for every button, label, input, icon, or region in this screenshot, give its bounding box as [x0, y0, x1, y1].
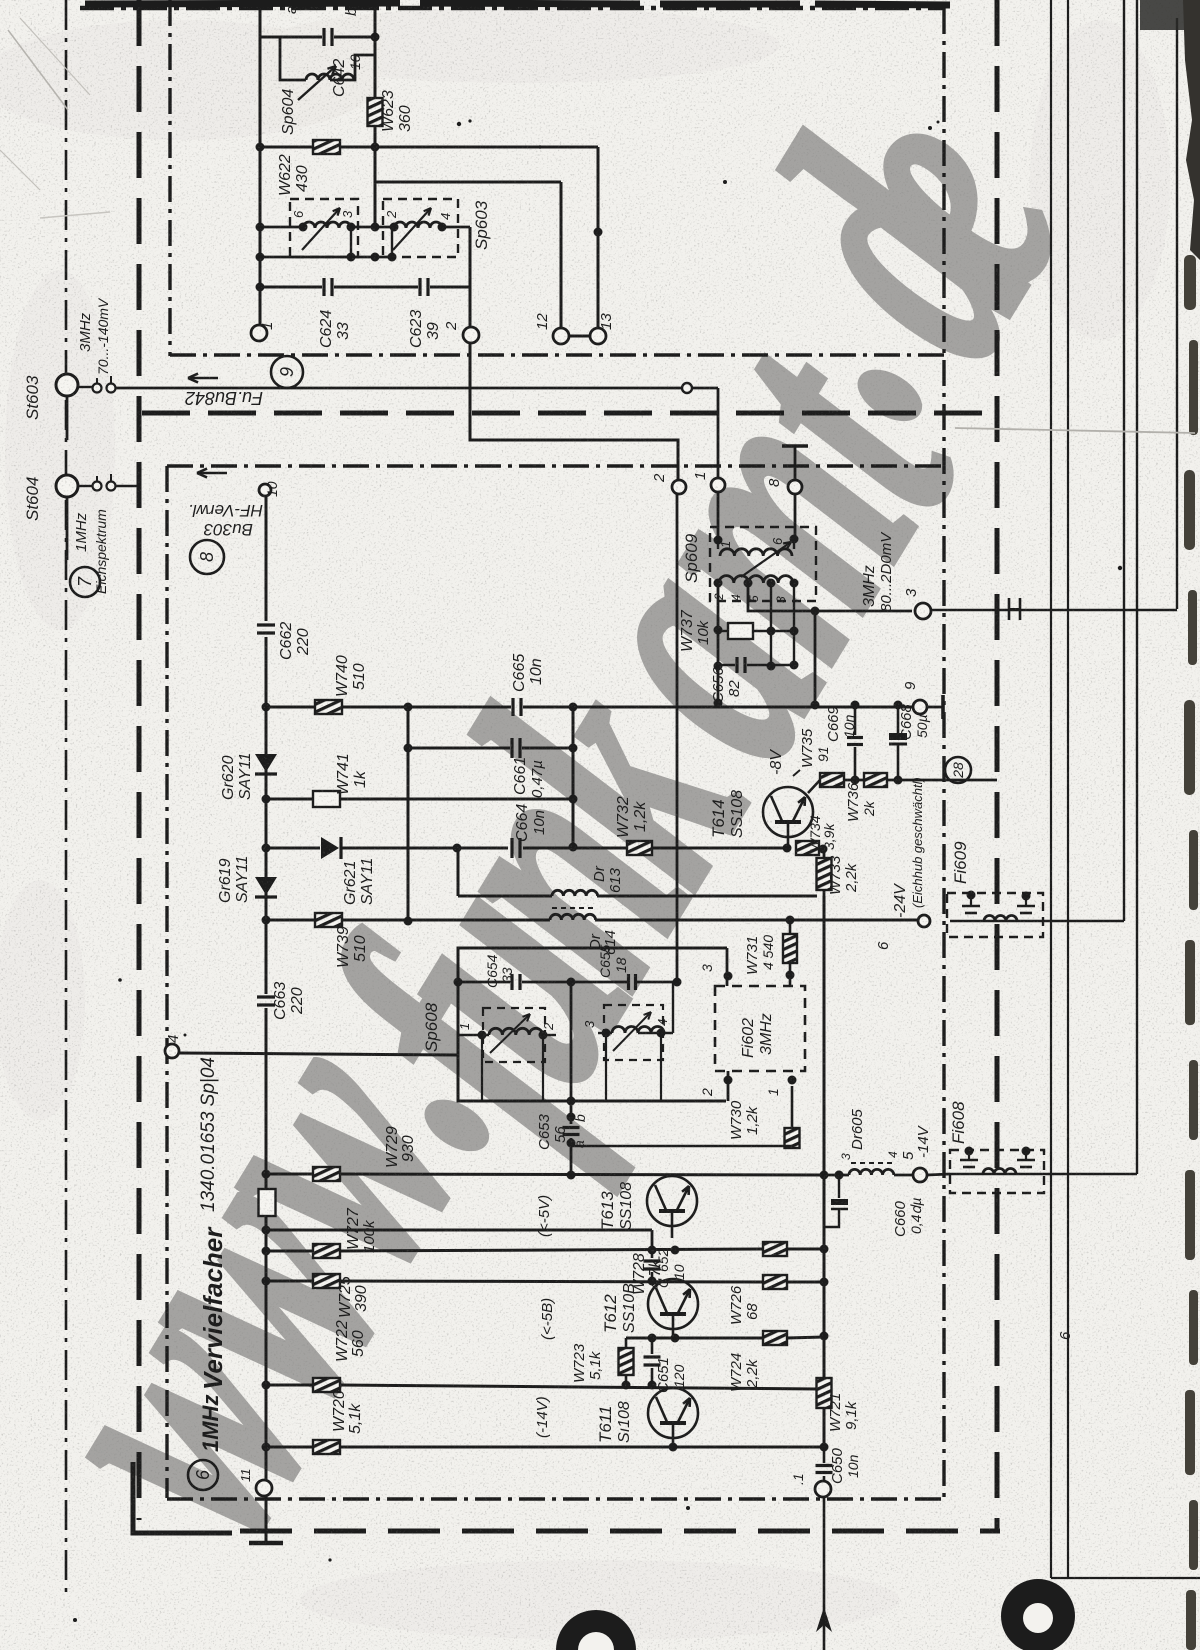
capacitor C650	[823, 1447, 826, 1463]
Fi602 pin1	[788, 1076, 797, 1085]
vertical x561 term12	[560, 182, 563, 329]
vertical x815 to main wire	[814, 611, 817, 705]
Fi602 dashed box	[715, 986, 805, 1071]
resistor W740	[315, 700, 342, 714]
punch hole left	[556, 1610, 636, 1650]
capacitor C660 hang	[835, 1171, 844, 1180]
transformer Sp603 box left	[290, 199, 358, 257]
block1 dash-dot bottom border	[170, 353, 944, 356]
heavy dashed frame corner bottom	[133, 1462, 232, 1533]
vertical pin4 x673	[672, 982, 674, 1033]
capacitor C651	[651, 1338, 654, 1354]
circled 28	[945, 757, 971, 783]
wire collector T614 y780	[808, 780, 820, 793]
coil Dr614	[550, 914, 596, 920]
wire y37 with C642	[260, 36, 322, 39]
trunk x824 top joint	[819, 847, 824, 850]
wire y799 with W741	[266, 798, 313, 801]
connector St603	[56, 374, 78, 396]
resistor on y1385	[313, 1378, 340, 1392]
resistor W721 vertical	[817, 1378, 832, 1408]
Sp608 coil right	[612, 1027, 664, 1034]
wire top left vertical x260	[259, 0, 262, 332]
wire y748 with C661	[408, 747, 510, 750]
resistor W622	[313, 140, 340, 154]
Fi609 wire to frame	[1043, 920, 1124, 922]
capacitor C665	[511, 698, 514, 716]
Fi609 dashed box	[947, 893, 1043, 937]
Fi609 internals	[950, 920, 1043, 923]
frame vertical line E	[1176, 18, 1178, 609]
resistor W725	[313, 1244, 340, 1258]
W723 resistor vertical	[625, 1338, 628, 1348]
arrow left Fu.Bu842	[188, 377, 218, 380]
input arrow bottom	[823, 1497, 826, 1650]
wire top x375 vertical	[374, 2, 377, 227]
terminal 3	[915, 603, 931, 619]
wire main from St603	[116, 387, 683, 390]
wire y1385	[266, 1384, 313, 1387]
wire y896 with Dr613	[458, 895, 552, 898]
terminal 5	[913, 1168, 927, 1182]
Sp609 coil top	[720, 549, 792, 556]
vertical term1 to pin1	[717, 492, 720, 540]
circled 7	[70, 567, 100, 597]
bus vertical x267 upper	[265, 496, 268, 621]
capacitor C662	[257, 623, 275, 626]
capacitor C656	[735, 657, 738, 673]
vertical x598 term13	[597, 147, 600, 329]
Sp608 wire y982	[458, 981, 510, 984]
transistor T613	[647, 1176, 697, 1226]
terminal 9	[913, 700, 927, 714]
connector mark H on wire	[1008, 598, 1011, 620]
coil Sp604	[306, 74, 354, 80]
capacitor C623	[418, 278, 421, 296]
Sp608 frame	[458, 948, 727, 1101]
wire y1230	[266, 1229, 652, 1232]
coil Dr605	[824, 1174, 849, 1177]
terminal 1 bottom	[815, 1481, 831, 1497]
capacitor C642	[322, 28, 325, 46]
top edge dark band	[85, 3, 950, 5]
resistor W738	[259, 1189, 276, 1216]
wire y707 main	[266, 706, 511, 709]
vertical pin2 down x718	[717, 583, 720, 703]
terminal 1 block1	[251, 325, 267, 341]
wire y848 with Gr621	[266, 847, 320, 850]
wire y780 right	[887, 779, 997, 782]
capacitor C624	[322, 278, 325, 296]
resistor W739	[315, 913, 342, 927]
vertical x408	[407, 707, 410, 922]
heavy dashed frame left	[137, 0, 142, 1520]
punch hole right	[1001, 1579, 1075, 1650]
terminal 10	[259, 484, 271, 496]
resistor W737	[728, 623, 753, 639]
St603 stub below	[66, 396, 69, 440]
Sp609 pins top	[714, 536, 723, 545]
diode Gr621	[321, 837, 339, 859]
coil Dr613	[552, 890, 598, 896]
terminal 2 block8	[672, 480, 686, 494]
transistor T611	[648, 1388, 698, 1438]
wire term2 from block1	[470, 343, 678, 480]
circled 6 title	[188, 1460, 218, 1490]
stub above terminal 8	[794, 447, 797, 480]
block8 dash-dot top border	[167, 464, 944, 467]
inner frame vertical line B	[1067, 0, 1069, 1578]
Sp608 coil pins	[458, 1034, 489, 1036]
Fi602 pin2	[724, 1076, 733, 1085]
block8 dash-dot right border	[942, 8, 945, 1497]
wire y1175	[266, 1173, 313, 1176]
resistor W728	[763, 1242, 787, 1256]
wire right loop x470	[469, 227, 472, 327]
wire C656 y665	[718, 664, 735, 666]
heavy dashed frame bottom	[240, 1529, 1000, 1534]
wire 3MHz output to right frame	[931, 609, 1177, 611]
W730 resistor vertical	[791, 1086, 794, 1128]
resistor W729	[313, 1167, 340, 1181]
wire corner to terminal 1	[717, 388, 720, 478]
vertical pin4 to 3MHz wire	[748, 583, 815, 611]
wire y147	[260, 146, 313, 149]
crease line right	[955, 428, 1195, 433]
ground at bus bottom	[249, 1541, 283, 1546]
block8 dash-dot bottom border	[167, 1497, 944, 1500]
C653 trunk x572	[570, 982, 573, 1124]
vertical pin5 x771	[770, 583, 772, 666]
wire y1447	[266, 1446, 313, 1449]
wire 12-13 link	[568, 335, 591, 338]
terminal 8 block8	[788, 480, 802, 494]
Sp603 pin wires y227	[260, 226, 303, 229]
wire 3MHz y611	[815, 610, 912, 613]
vertical term8 to pin6	[794, 494, 797, 539]
top-left scratches	[8, 30, 68, 110]
resistor W736	[864, 773, 887, 787]
trunk vertical x824	[823, 896, 826, 1378]
wire y920 with Dr614	[266, 919, 550, 922]
transistor T612	[648, 1279, 698, 1329]
W731 resistor	[789, 921, 792, 934]
Sp608 coil left	[489, 1028, 543, 1035]
bus vertical x267 lower	[265, 1008, 268, 1189]
page border dash-dot left	[65, 0, 68, 1592]
terminal 12	[553, 328, 569, 344]
block1 dash-dot left border	[168, 0, 171, 356]
connector St604	[56, 475, 78, 497]
circled 9	[271, 356, 303, 388]
wire y1250	[266, 1250, 313, 1253]
resistor W733 vertical	[817, 858, 832, 890]
terminal 2 block1	[463, 327, 479, 343]
Sp603 coil left	[303, 222, 351, 228]
contact circle on wire	[682, 383, 692, 393]
wire y1146 to C653	[572, 1146, 792, 1148]
capacitor C663	[257, 995, 275, 998]
heavy dashed frame right	[995, 0, 1000, 1531]
frame vertical line D (to Fi608)	[1136, 0, 1138, 1174]
wire y182	[375, 181, 561, 184]
Sp608 tap stubs	[481, 1035, 483, 1101]
vertical x677 term2 to C655	[676, 494, 679, 982]
capacitor C652	[651, 1250, 654, 1258]
transistor T614	[763, 787, 813, 837]
wire y1338	[626, 1337, 763, 1340]
resistor W732	[627, 841, 652, 855]
transformer Sp603 box right	[383, 199, 458, 257]
resistor W623	[368, 98, 383, 126]
vertical pin3 x794	[793, 583, 795, 665]
arrow left HF-Verwl	[197, 472, 227, 475]
terminal 4 wire	[165, 1044, 179, 1058]
Fi608 dashed box	[950, 1150, 1044, 1193]
Sp608 dashed box right	[604, 1005, 663, 1060]
circled 8	[190, 540, 224, 574]
capacitor C655	[627, 974, 630, 990]
Sp609 coil bottom	[719, 576, 793, 583]
St604 stub below	[66, 497, 69, 560]
diode Gr619	[255, 877, 277, 895]
frame vertical line C (to Fi609)	[1123, 0, 1125, 921]
Sp609 arrow	[741, 542, 791, 577]
bus vertical x267 mid	[265, 637, 268, 994]
wire y1281	[266, 1280, 313, 1283]
vertical x573	[572, 707, 575, 847]
corner x458 y847-y896	[457, 848, 460, 896]
terminal 1 block8	[711, 478, 725, 492]
diode Gr620	[255, 754, 277, 772]
resistor W724	[763, 1331, 787, 1345]
resistor W735	[820, 773, 844, 787]
Fi608 wire to frame	[1044, 1173, 1137, 1175]
capacitor C668 electrolytic	[897, 707, 900, 733]
resistor W726	[763, 1275, 787, 1289]
heavy dashed horizontal y413	[142, 411, 997, 416]
block1 dash-dot top border	[80, 6, 944, 11]
Sp603 coil right	[394, 222, 442, 228]
terminal 6 -24V	[918, 915, 930, 927]
Fi608 internals	[950, 1173, 1044, 1176]
wire y287 with C624 C623	[260, 286, 322, 289]
Fi602 pin3	[724, 972, 733, 981]
resistor W722 on y1281	[313, 1274, 340, 1288]
block8 dash-dot left border	[165, 466, 168, 1498]
capacitor C669	[854, 707, 857, 735]
stray marks	[73, 119, 1122, 1622]
T614 base wire resistor W734	[796, 841, 819, 855]
Sp603 bottom link wire y257	[260, 256, 392, 259]
inner frame vertical line A	[1050, 0, 1052, 1578]
terminal 11	[256, 1480, 272, 1496]
resistor on y1447	[313, 1440, 340, 1454]
resistor W741	[313, 791, 340, 807]
wire y780 middle	[844, 779, 864, 782]
transformer Sp609 dashed box	[710, 527, 816, 601]
capacitor C664	[510, 838, 513, 858]
capacitor C654	[510, 974, 513, 990]
right torn edge	[1183, 0, 1200, 260]
terminal 13	[590, 328, 606, 344]
inner frame bottom right corner	[1051, 1577, 1200, 1579]
Sp608 dashed box left	[483, 1008, 545, 1062]
